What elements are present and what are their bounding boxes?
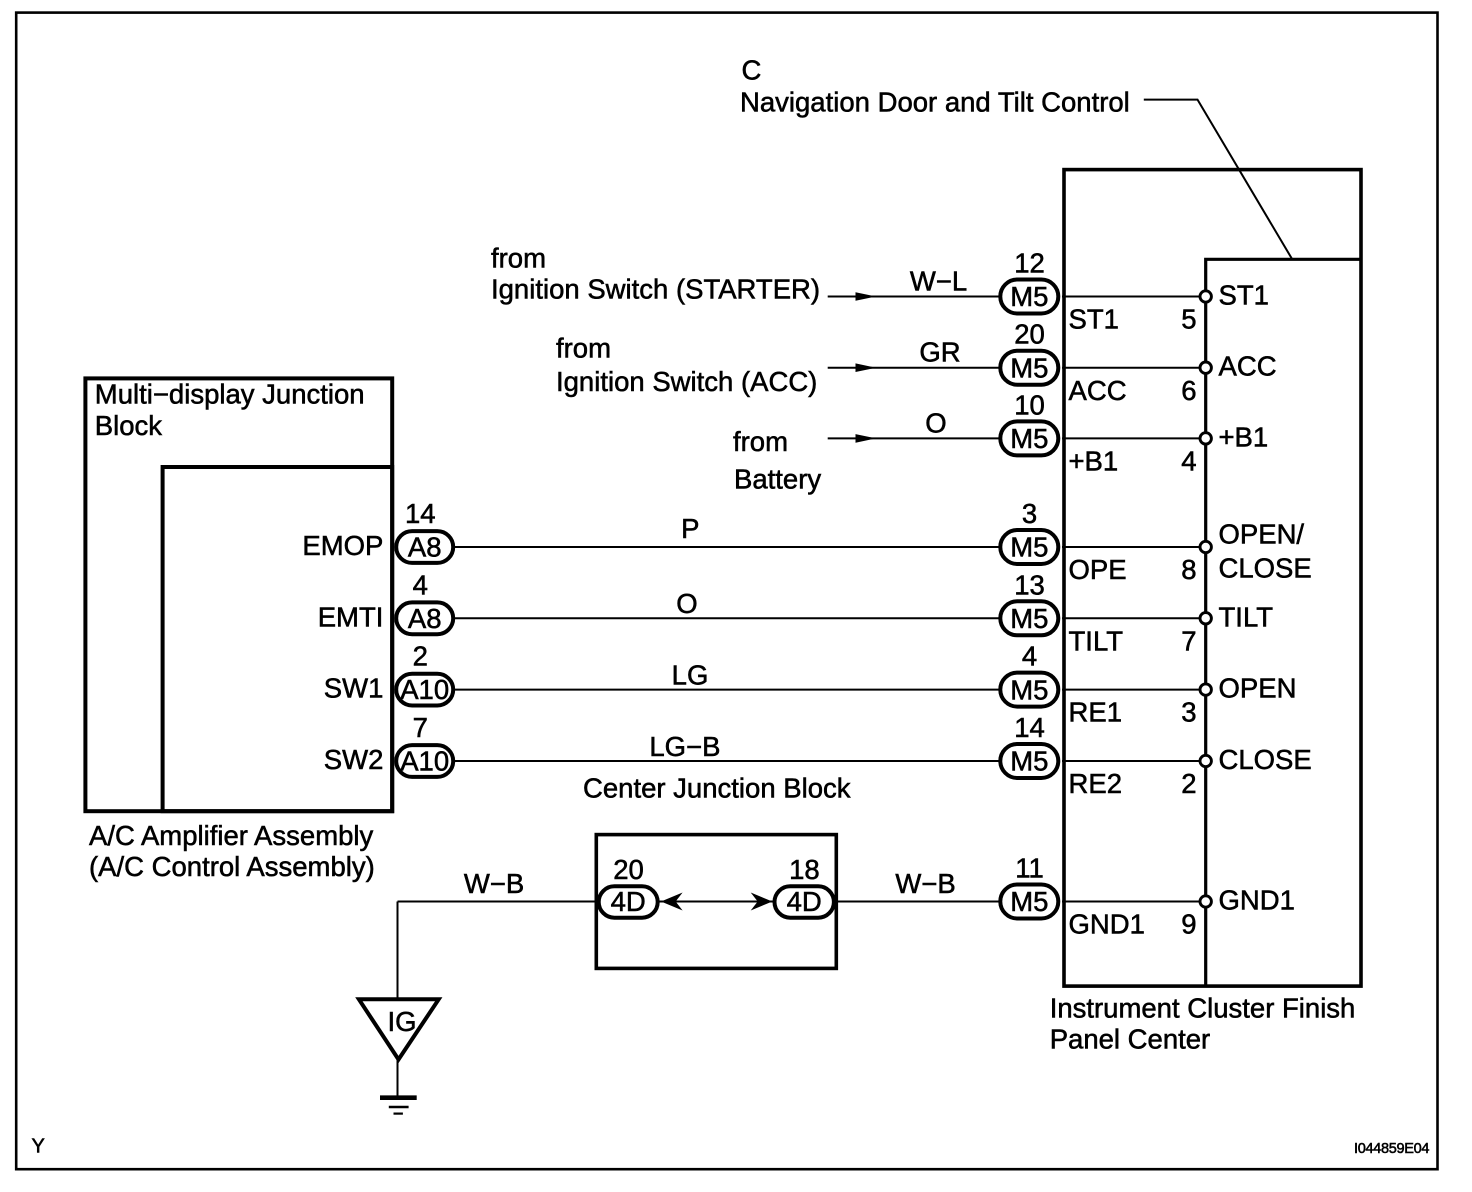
svg-text:A10: A10 <box>400 746 449 777</box>
svg-text:Instrument Cluster Finish: Instrument Cluster Finish <box>1050 992 1356 1023</box>
svg-text:4: 4 <box>413 569 428 600</box>
svg-text:OPE: OPE <box>1069 554 1127 585</box>
svg-text:CLOSE: CLOSE <box>1219 552 1312 583</box>
wire EMOP to M5 <box>455 546 999 548</box>
wire SW2 to M5 <box>455 760 999 762</box>
connector M5 oval pin 10 (+B1) <box>1000 421 1058 455</box>
svg-text:4D: 4D <box>787 886 822 917</box>
svg-text:from: from <box>491 243 546 274</box>
svg-text:A8: A8 <box>408 532 442 563</box>
svg-text:ST1: ST1 <box>1219 280 1269 311</box>
svg-text:ACC: ACC <box>1069 375 1127 406</box>
wire from ignition/battery row 1 <box>828 296 999 298</box>
svg-text:Navigation Door and Tilt Contr: Navigation Door and Tilt Control <box>740 87 1130 118</box>
svg-text:LG−B: LG−B <box>649 731 720 762</box>
svg-text:13: 13 <box>1014 569 1045 600</box>
svg-text:P: P <box>681 513 699 544</box>
svg-text:TILT: TILT <box>1069 625 1124 656</box>
IG ground triangle <box>359 999 439 1059</box>
svg-text:M5: M5 <box>1010 281 1048 312</box>
svg-text:from: from <box>556 332 611 363</box>
wire stub inside box row 8 <box>1062 901 1200 903</box>
connector C inner box (left edge + top edge) <box>1206 259 1361 986</box>
svg-text:M5: M5 <box>1010 746 1048 777</box>
wire W-B from IG to center junction block <box>398 901 598 903</box>
wire stub inside box row 4 <box>1062 546 1200 548</box>
wire stub inside box row 1 <box>1062 296 1200 298</box>
svg-text:Center Junction Block: Center Junction Block <box>583 772 851 803</box>
svg-text:Multi−display Junction: Multi−display Junction <box>95 379 365 410</box>
connector M5 oval pin 4 (RE1) <box>1000 673 1058 707</box>
svg-text:O: O <box>925 407 946 438</box>
svg-text:Ignition Switch (ACC): Ignition Switch (ACC) <box>556 366 817 397</box>
svg-text:Ignition Switch (STARTER): Ignition Switch (STARTER) <box>491 274 820 305</box>
svg-text:W−B: W−B <box>464 868 524 899</box>
svg-text:20: 20 <box>1014 319 1045 350</box>
svg-text:C: C <box>742 55 762 86</box>
pin circle row 3 <box>1200 433 1211 444</box>
wire EMTI to M5 <box>455 617 999 619</box>
svg-text:EMOP: EMOP <box>302 530 383 561</box>
Center Junction Block box <box>596 835 836 969</box>
connector M5 oval pin 14 (RE2) <box>1000 744 1058 778</box>
svg-text:GR: GR <box>919 337 960 368</box>
connector M5 oval pin 20 (ACC) <box>1000 351 1058 385</box>
svg-text:+B1: +B1 <box>1069 446 1119 477</box>
svg-text:4: 4 <box>1022 641 1037 672</box>
connector A10 oval pin 2 (SW1) <box>396 674 453 706</box>
svg-text:10: 10 <box>1014 389 1045 420</box>
svg-text:6: 6 <box>1181 375 1196 406</box>
svg-text:ACC: ACC <box>1219 351 1277 382</box>
wire stub inside box row 2 <box>1062 367 1200 369</box>
mating arrow right <box>751 893 773 911</box>
wire from ignition/battery row 3 <box>828 437 999 439</box>
connector M5 oval pin 11 (GND1) <box>1000 885 1058 919</box>
svg-text:SW1: SW1 <box>324 673 384 704</box>
svg-text:SW2: SW2 <box>324 744 384 775</box>
pin circle row 4 <box>1200 541 1211 552</box>
svg-text:(A/C Control Assembly): (A/C Control Assembly) <box>89 851 375 882</box>
svg-text:3: 3 <box>1022 498 1037 529</box>
svg-text:EMTI: EMTI <box>318 601 384 632</box>
svg-text:8: 8 <box>1181 554 1196 585</box>
ground symbol <box>380 1095 417 1100</box>
connector A8 oval pin 4 (EMTI) <box>396 602 453 634</box>
svg-text:+B1: +B1 <box>1219 421 1269 452</box>
svg-text:M5: M5 <box>1010 352 1048 383</box>
svg-text:W−B: W−B <box>895 868 955 899</box>
pin circle row 8 <box>1200 896 1211 907</box>
svg-text:GND1: GND1 <box>1069 909 1145 940</box>
svg-text:I044859E04: I044859E04 <box>1354 1141 1429 1157</box>
svg-text:O: O <box>676 588 697 619</box>
pin circle row 1 <box>1200 291 1211 302</box>
wire from ignition/battery row 2 <box>828 367 999 369</box>
wire stub inside box row 6 <box>1062 689 1200 691</box>
wire SW1 to M5 <box>455 689 999 691</box>
arrowhead row 1 <box>856 292 877 301</box>
svg-text:M5: M5 <box>1010 603 1048 634</box>
svg-text:OPEN/: OPEN/ <box>1219 519 1305 550</box>
pin circle row 6 <box>1200 684 1211 695</box>
svg-text:5: 5 <box>1181 304 1196 335</box>
svg-text:Block: Block <box>95 410 162 441</box>
svg-text:11: 11 <box>1015 853 1044 884</box>
svg-text:ST1: ST1 <box>1069 304 1119 335</box>
svg-text:IG: IG <box>387 1006 416 1037</box>
svg-text:A/C Amplifier Assembly: A/C Amplifier Assembly <box>89 820 374 851</box>
pin circle row 7 <box>1200 755 1211 766</box>
svg-text:CLOSE: CLOSE <box>1219 744 1312 775</box>
connector M5 oval pin 13 (TILT) <box>1000 601 1058 635</box>
mating arrow left <box>661 893 683 911</box>
wire W-B from junction block to M5 <box>836 901 1000 903</box>
pin circle row 5 <box>1200 613 1211 624</box>
svg-text:2: 2 <box>413 641 428 672</box>
connector A8 oval pin 14 (EMOP) <box>396 531 453 563</box>
svg-text:M5: M5 <box>1010 886 1048 917</box>
callout leader line to connector box <box>1144 100 1292 259</box>
wire stub inside box row 7 <box>1062 760 1200 762</box>
Multi-display Junction Block box <box>85 378 392 811</box>
connector M5 oval pin 12 (ST1) <box>1000 280 1058 314</box>
svg-text:14: 14 <box>1014 712 1045 743</box>
svg-text:Y: Y <box>32 1136 45 1158</box>
arrowhead row 2 <box>856 363 877 372</box>
Instrument Cluster Finish Panel Center box <box>1064 170 1361 987</box>
wire stub inside box row 3 <box>1062 437 1200 439</box>
connector A10 oval pin 7 (SW2) <box>396 745 453 777</box>
svg-text:14: 14 <box>405 498 436 529</box>
svg-text:4D: 4D <box>611 886 646 917</box>
wire stub inside box row 5 <box>1062 617 1200 619</box>
svg-text:3: 3 <box>1181 697 1196 728</box>
wire IG triangle to ground <box>397 1059 399 1097</box>
svg-text:4: 4 <box>1181 446 1196 477</box>
svg-text:18: 18 <box>789 854 820 885</box>
svg-text:from: from <box>733 426 788 457</box>
svg-text:20: 20 <box>613 854 644 885</box>
arrowhead row 3 <box>856 434 877 443</box>
svg-text:7: 7 <box>1181 625 1196 656</box>
connector 4D left oval pin 20 <box>599 886 658 917</box>
connector 4D right oval pin 18 <box>775 886 834 917</box>
svg-text:M5: M5 <box>1010 423 1048 454</box>
svg-text:9: 9 <box>1181 909 1196 940</box>
svg-text:RE2: RE2 <box>1069 768 1123 799</box>
svg-text:Panel Center: Panel Center <box>1050 1023 1211 1054</box>
svg-text:2: 2 <box>1181 768 1196 799</box>
svg-text:TILT: TILT <box>1219 601 1274 632</box>
svg-text:12: 12 <box>1014 248 1045 279</box>
connector M5 oval pin 3 (OPE) <box>1000 530 1058 564</box>
A/C amplifier inner box <box>163 467 393 811</box>
svg-text:M5: M5 <box>1010 674 1048 705</box>
svg-text:7: 7 <box>413 712 428 743</box>
svg-text:M5: M5 <box>1010 532 1048 563</box>
pin circle row 2 <box>1200 362 1211 373</box>
wire drop to IG triangle <box>397 902 399 1001</box>
svg-text:Battery: Battery <box>734 464 821 495</box>
svg-text:GND1: GND1 <box>1219 885 1295 916</box>
svg-text:W−L: W−L <box>910 266 967 297</box>
svg-text:A10: A10 <box>400 674 449 705</box>
svg-text:RE1: RE1 <box>1069 697 1123 728</box>
svg-text:A8: A8 <box>408 603 442 634</box>
svg-text:OPEN: OPEN <box>1219 673 1297 704</box>
svg-text:LG: LG <box>672 660 709 691</box>
wire between 4D connectors <box>660 901 774 903</box>
